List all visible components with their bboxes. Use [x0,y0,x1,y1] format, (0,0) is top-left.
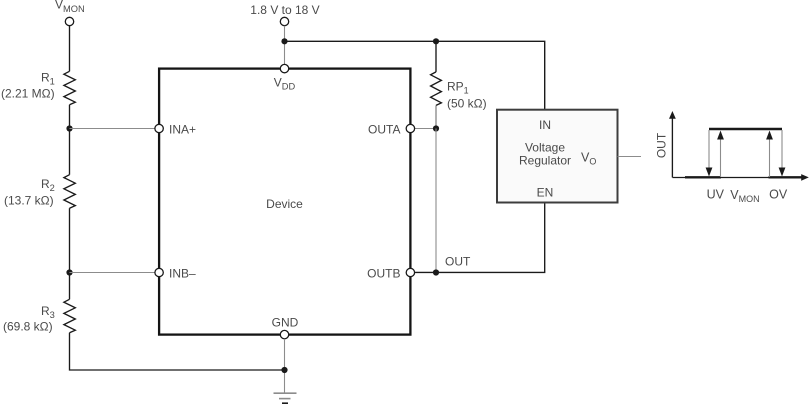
wire top rail [285,41,545,110]
svg-text:(2.21 MΩ): (2.21 MΩ) [1,87,55,101]
pin INA+ [155,124,163,132]
svg-text:Regulator: Regulator [519,153,571,167]
node GND junction [281,367,287,373]
arrow UV falling [708,130,710,169]
pin OUTB [406,268,414,276]
node supply terminal [280,17,288,25]
pin VDD [280,64,288,72]
wire R3 to ground rail [70,333,285,370]
resistor R1 [64,71,75,105]
node A junction [66,125,72,131]
svg-text:INA+: INA+ [169,123,196,137]
svg-text:OUTB: OUTB [367,267,400,281]
arrow OV falling [781,130,783,169]
wire VO output [618,156,642,158]
svg-text:1.8 V to 18 V: 1.8 V to 18 V [250,3,319,17]
resistor R2 [64,175,75,209]
node VMON terminal [65,17,73,25]
wire stub INB- [70,272,156,274]
node OUT junction [433,269,439,275]
graph signal high segment [709,128,782,130]
pin OUTA [406,124,414,132]
resistor R3 [64,299,75,333]
svg-text:EN: EN [537,186,554,200]
arrow UV rising [720,139,722,177]
ground [274,392,297,394]
svg-text:INB–: INB– [169,267,196,281]
svg-text:OUTA: OUTA [368,123,400,137]
svg-text:OUT: OUT [445,255,471,269]
wire R1 to R2 [69,105,71,175]
svg-text:OV: OV [769,188,788,202]
wire stub INA+ [70,128,156,130]
regulator box U2 [497,110,618,203]
node RP1 junction [433,38,439,44]
wire GND stub down [284,339,286,393]
wire R2 to R3 [69,208,71,299]
wire RP1 top lead [435,41,437,72]
graph signal low segments [685,176,721,178]
svg-text:(69.8 kΩ): (69.8 kΩ) [3,320,53,334]
wire VMON to R1 [69,26,71,72]
resistor RP1 [431,72,442,106]
wire supply stub to VDD [284,26,286,65]
svg-text:Device: Device [266,197,303,211]
node OUTA junction [433,125,439,131]
pin INB- [155,268,163,276]
svg-text:UV: UV [707,188,725,202]
pin GND [280,330,288,338]
arrow OV rising [769,139,771,177]
svg-text:(13.7 kΩ): (13.7 kΩ) [4,194,54,208]
wire stub OUTA [415,128,436,130]
wire OUTA to OUT node [435,129,437,273]
wire RP1 bottom lead [435,105,437,128]
svg-text:(50 kΩ): (50 kΩ) [447,97,487,111]
graph y-axis [671,117,673,178]
svg-text:IN: IN [539,118,551,132]
svg-text:GND: GND [272,316,299,330]
node supply junction [281,38,287,44]
node B junction [66,269,72,275]
svg-text:OUT: OUT [655,132,669,158]
wire OUTB to EN [415,203,545,272]
graph x-axis [673,177,803,179]
device box U1 [159,69,410,335]
